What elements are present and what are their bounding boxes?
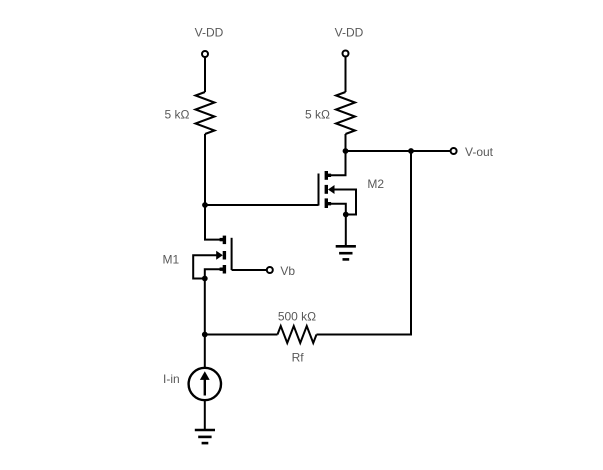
wire R2 to node D and M2 drain bbox=[326, 134, 345, 175]
svg-text:M1: M1 bbox=[163, 253, 180, 267]
svg-text:5 kΩ: 5 kΩ bbox=[305, 108, 330, 122]
wire Rf to V-out branch bbox=[317, 151, 412, 335]
resistor R2 5 kΩ bbox=[336, 92, 355, 134]
node A junction bbox=[202, 202, 208, 208]
wire R1 to node A bbox=[204, 134, 206, 205]
svg-text:V-DD: V-DD bbox=[335, 26, 364, 40]
wire current source to ground bbox=[204, 400, 206, 430]
svg-text:5 kΩ: 5 kΩ bbox=[165, 108, 190, 122]
wire node A to M2 gate bbox=[205, 204, 319, 206]
wire M1 gate to Vb terminal bbox=[232, 269, 267, 271]
current source I-in bbox=[189, 368, 221, 400]
wire node E to V-out terminal bbox=[411, 150, 450, 152]
terminal V-DD left bbox=[202, 51, 208, 57]
wire V-DD right terminal to R2 bbox=[345, 57, 347, 92]
wire V-DD left terminal to R1 bbox=[204, 57, 206, 92]
ground (below M2) bbox=[336, 246, 356, 259]
node C junction bbox=[202, 332, 208, 338]
svg-text:500 kΩ: 500 kΩ bbox=[278, 310, 316, 324]
node F junction bbox=[343, 212, 349, 218]
wire M1 source to node B bbox=[205, 269, 220, 278]
wire M2 source to node F bbox=[331, 204, 346, 215]
wire M1 bulk to node B bbox=[193, 255, 217, 278]
ground (below I-in) bbox=[195, 430, 215, 443]
transistor M1 bbox=[216, 236, 231, 274]
wire node C to Rf bbox=[205, 334, 278, 336]
wire node A to M1 drain bbox=[205, 205, 224, 240]
node B junction bbox=[202, 276, 208, 282]
svg-text:V-DD: V-DD bbox=[195, 26, 224, 40]
transistor M2 bbox=[319, 171, 335, 208]
wire node B to node C bbox=[204, 279, 206, 335]
svg-text:Vb: Vb bbox=[280, 264, 295, 278]
wire node D to node E bbox=[346, 150, 412, 152]
resistor Rf 500 kΩ bbox=[278, 326, 317, 343]
terminal V-DD right bbox=[343, 51, 349, 57]
svg-text:I-in: I-in bbox=[163, 372, 180, 386]
node E junction bbox=[408, 148, 414, 154]
wire M2 bulk to node F bbox=[334, 190, 356, 215]
svg-text:Rf: Rf bbox=[292, 351, 305, 365]
svg-text:M2: M2 bbox=[367, 177, 384, 191]
terminal Vb bbox=[267, 267, 273, 273]
wire node C to current source bbox=[204, 335, 206, 368]
wire node F to ground bbox=[345, 215, 347, 247]
svg-text:V-out: V-out bbox=[465, 145, 494, 159]
terminal V-out bbox=[451, 148, 457, 154]
node D junction bbox=[343, 148, 349, 154]
resistor R1 5 kΩ bbox=[196, 92, 215, 134]
